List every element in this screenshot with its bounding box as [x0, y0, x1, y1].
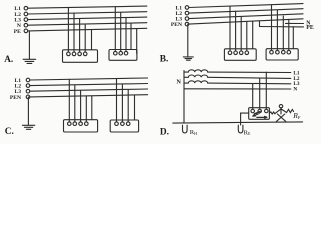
wire L1 tap to load2 (B) [271, 5, 273, 50]
wire PEN tap to load1 chassis (B) [252, 21, 254, 49]
svg-text:B.: B. [160, 55, 169, 65]
wire PEN to PE branch vertical (B) [259, 21, 261, 27]
pin N of load 1 (B) [245, 51, 249, 55]
pin L3 of load 2 (B) [282, 50, 286, 54]
node L3 terminal (A) [24, 18, 28, 22]
transformer winding L3 (D) [184, 81, 208, 83]
svg-text:PEN: PEN [10, 95, 21, 101]
wire PEN tap to load1 N pin (C) [85, 96, 87, 122]
wire L3 tap to load1 (C) [80, 90, 82, 122]
node L3 terminal (C) [26, 89, 30, 93]
node L2 terminal (C) [26, 84, 30, 88]
wire PEN to earth (B) [187, 24, 189, 56]
pin N of load 1 (C) [85, 122, 89, 126]
svg-text:N: N [293, 87, 297, 93]
wire PEN to earth (C) [27, 97, 29, 125]
svg-text:PEN: PEN [171, 22, 182, 28]
svg-text:PE: PE [306, 25, 314, 31]
appliance enclosure (D) [249, 108, 270, 120]
ground (C) [22, 125, 34, 129]
wire L1 (C) [30, 78, 148, 80]
wire L3 (D) [208, 82, 291, 85]
wire L2 (D) [208, 77, 291, 78]
wire PE tap to load1 chassis (A) [91, 30, 93, 50]
pin L3 of load 2 (C) [126, 122, 130, 126]
wire N (D) [184, 88, 291, 90]
pin L2 of load 2 (A) [119, 51, 123, 55]
wire PE tap to load2 chassis (A) [136, 29, 138, 54]
wire L2 (C) [30, 84, 148, 86]
wire L1 tap to load2 (C) [116, 79, 118, 122]
wire L1 tap to load1 (A) [67, 8, 69, 53]
wire L1 tap to load1 (B) [229, 6, 231, 51]
pin L3 of load 1 (A) [78, 52, 82, 56]
load 2 enclosure (A) [109, 50, 137, 61]
wire L2 tap to load1 (C) [74, 85, 76, 122]
fault current arrow to chassis (D) [257, 116, 267, 118]
load 2 enclosure (C) [110, 120, 138, 132]
pin L2 of load 1 (A) [72, 52, 76, 56]
wire L2 tap to load2 (B) [276, 11, 278, 51]
wire L1 (A) [28, 6, 147, 8]
wire PEN tap to load1 N pin (B) [246, 22, 248, 52]
load 1 enclosure (B) [224, 49, 256, 61]
ground (A) [23, 59, 36, 63]
touch resistance zigzag box to hand (D) [269, 112, 275, 114]
load 1 enclosure (C) [64, 120, 98, 132]
node L1 terminal (A) [24, 6, 28, 10]
svg-text:RH: RH [190, 129, 197, 136]
svg-text:C.: C. [5, 127, 14, 137]
person head (D) [279, 105, 283, 108]
pin 1 of appliance (D) [251, 109, 255, 113]
wire N tap to load2 (A) [130, 23, 132, 49]
wire PE branch (B) [260, 26, 304, 28]
wire PEN (C) [30, 95, 148, 97]
wire L2 tap to load1 (B) [235, 11, 237, 51]
pin L3 of load 2 (A) [124, 51, 128, 55]
node L1 terminal (C) [26, 78, 30, 82]
pin L1 of load 1 (B) [228, 51, 232, 55]
wire L2 tap to load2 (A) [120, 12, 122, 51]
pin L2 of load 2 (C) [121, 122, 125, 126]
node L1 terminal (B) [185, 6, 189, 10]
wire L1 tap to load2 (A) [114, 7, 116, 52]
person left arm (D) [275, 109, 281, 114]
wire L2 (B) [189, 9, 303, 13]
person body (D) [280, 108, 282, 114]
wire L2 (A) [28, 12, 147, 14]
pin L2 of load 1 (C) [73, 122, 77, 126]
earth electrode RE (D) [238, 125, 243, 133]
svg-text:RE: RE [244, 129, 251, 136]
wire L3 (C) [30, 89, 148, 91]
node PE terminal (A) [24, 29, 28, 33]
pin N of load 1 (A) [83, 52, 87, 56]
pin L3 of load 1 (C) [79, 122, 83, 126]
node L2 terminal (A) [24, 12, 28, 16]
wire L1 (D) [208, 71, 291, 73]
person right arm (D) [281, 109, 287, 113]
svg-text:PE: PE [14, 29, 21, 35]
wire L3 tap to load2 (B) [282, 16, 284, 50]
pin L2 of load 2 (B) [276, 50, 280, 54]
wire L3 (B) [189, 14, 303, 19]
transformer winding L2 (D) [184, 75, 208, 77]
wire L1 tap to load1 (C) [68, 79, 70, 122]
wire N (A) [28, 23, 147, 26]
pin L1 of load 1 (C) [68, 122, 72, 126]
wire L2 tap to load1 (A) [73, 13, 75, 52]
wire L2 tap to appliance (D) [259, 78, 261, 109]
svg-text:N: N [176, 79, 181, 86]
pin L3 of load 1 (B) [239, 51, 243, 55]
load 2 enclosure (B) [266, 49, 298, 60]
pin 3 of appliance (D) [265, 109, 269, 113]
svg-text:A.: A. [4, 54, 13, 64]
wire PE to earth (A) [28, 31, 30, 59]
transformer winding L1 (D) [184, 70, 208, 72]
wire L1 (B) [189, 4, 303, 8]
wire L2 tap to load2 (C) [121, 84, 123, 122]
wire PEN tap to load2 chassis (C) [134, 95, 136, 120]
wire appliance chassis to electrode (D) [241, 113, 249, 125]
svg-text:D.: D. [160, 127, 169, 137]
wire L1 tap to appliance (D) [265, 72, 267, 109]
wire N tap to load1 (A) [84, 24, 86, 52]
wire L3 tap to load1 (A) [79, 19, 81, 52]
node L3 terminal (B) [185, 17, 189, 21]
wire PE (A) [28, 28, 147, 31]
wire transformer star-point bus (D) [183, 71, 185, 123]
wire L3 tap to load1 (B) [240, 17, 242, 51]
wire L3 tap to load2 (A) [125, 18, 127, 52]
node N terminal (A) [24, 23, 28, 27]
wire PEN tap to load1 chassis (C) [91, 96, 93, 120]
wire L3 tap to load2 (C) [127, 90, 129, 122]
wire L3 (A) [28, 17, 147, 20]
ground (B) [183, 57, 193, 60]
earth/floor line (D) [173, 122, 303, 123]
wire PE tap to load2 chassis (B) [292, 27, 294, 49]
earth electrode RH (D) [183, 125, 188, 133]
wire L3 tap to appliance (D) [252, 84, 254, 110]
load 1 enclosure (A) [63, 50, 98, 63]
node L2 terminal (B) [185, 11, 189, 15]
wire PEN tap to load2 N pin (B) [288, 19, 290, 50]
wire N stub to label (B) [286, 22, 304, 24]
person legs (D) [276, 114, 286, 122]
fault arrow inside appliance (D) [253, 111, 260, 116]
pin 2 of appliance (D) [258, 109, 262, 113]
node PEN terminal (B) [185, 22, 189, 26]
body resistance zigzag RF (D) [287, 109, 294, 112]
pin L2 of load 1 (B) [234, 51, 238, 55]
wire PEN (B) [189, 19, 303, 24]
pin L1 of load 2 (B) [270, 50, 274, 54]
pin L1 of load 2 (A) [114, 51, 118, 55]
pin N of load 2 (B) [287, 50, 291, 54]
pin L1 of load 2 (C) [115, 122, 119, 126]
pin L1 of load 1 (A) [67, 52, 71, 56]
node PEN terminal (C) [26, 95, 30, 99]
